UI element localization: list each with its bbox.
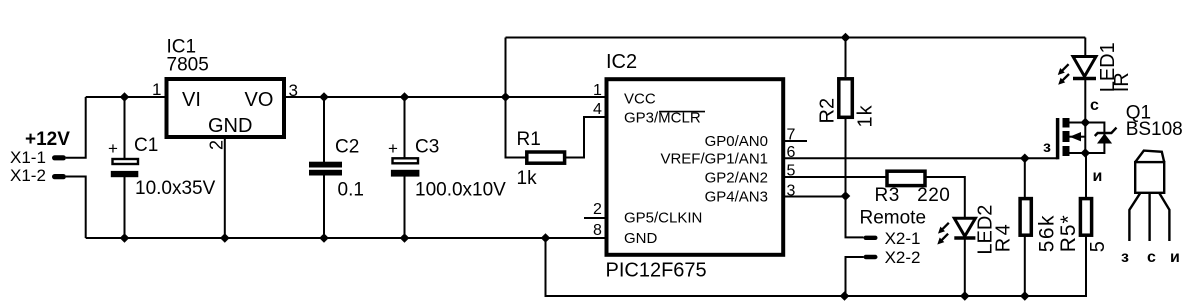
- svg-text:IC2: IC2: [606, 51, 637, 73]
- svg-text:c: c: [1090, 97, 1099, 114]
- svg-text:GND: GND: [208, 115, 252, 137]
- svg-text:R3 220: R3 220: [875, 185, 951, 206]
- svg-text:IR: IR: [1111, 72, 1133, 92]
- svg-text:8: 8: [593, 222, 602, 239]
- svg-text:+: +: [388, 139, 398, 158]
- svg-text:1: 1: [593, 82, 602, 99]
- svg-text:C3: C3: [415, 137, 439, 158]
- svg-text:0.1: 0.1: [338, 180, 364, 201]
- svg-text:C1: C1: [134, 135, 158, 156]
- svg-text:X1-2: X1-2: [10, 166, 46, 185]
- svg-text:и: и: [1170, 249, 1180, 266]
- svg-text:2: 2: [593, 201, 602, 218]
- svg-text:с: с: [1147, 249, 1156, 266]
- svg-text:и: и: [1093, 168, 1103, 185]
- svg-text:7: 7: [787, 127, 796, 144]
- svg-text:3: 3: [787, 183, 796, 200]
- svg-text:100.0x10V: 100.0x10V: [415, 180, 506, 201]
- svg-text:3: 3: [289, 81, 298, 100]
- svg-text:GP4/AN3: GP4/AN3: [705, 189, 768, 206]
- svg-text:з: з: [1043, 139, 1051, 156]
- svg-text:VCC: VCC: [624, 91, 656, 108]
- svg-text:X2-1: X2-1: [885, 229, 921, 248]
- svg-text:R2: R2: [817, 98, 839, 124]
- svg-text:4: 4: [593, 101, 602, 118]
- svg-text:5: 5: [1087, 241, 1109, 252]
- svg-text:+: +: [108, 139, 118, 158]
- svg-text:VI: VI: [182, 89, 201, 111]
- svg-text:VO: VO: [245, 89, 274, 111]
- svg-text:GND: GND: [624, 230, 658, 247]
- svg-text:GP5/CLKIN: GP5/CLKIN: [624, 210, 702, 227]
- svg-text:2: 2: [206, 140, 226, 150]
- svg-text:VREF/GP1/AN1: VREF/GP1/AN1: [660, 151, 768, 168]
- svg-text:PIC12F675: PIC12F675: [606, 260, 707, 282]
- svg-text:C2: C2: [335, 137, 359, 158]
- svg-text:GP2/AN2: GP2/AN2: [705, 170, 768, 187]
- svg-text:1k: 1k: [517, 168, 538, 189]
- svg-text:6: 6: [787, 144, 796, 161]
- svg-text:1: 1: [152, 80, 161, 99]
- svg-text:X1-1: X1-1: [10, 148, 46, 167]
- svg-text:56k: 56k: [1036, 214, 1059, 252]
- svg-text:+12V: +12V: [25, 129, 70, 150]
- svg-text:BS108: BS108: [1126, 119, 1183, 140]
- svg-text:7805: 7805: [167, 55, 209, 76]
- svg-text:1k: 1k: [855, 104, 877, 127]
- svg-text:R4: R4: [993, 222, 1015, 253]
- svg-text:Remote: Remote: [860, 208, 927, 229]
- svg-text:R1: R1: [517, 129, 541, 150]
- svg-text:GP0/AN0: GP0/AN0: [705, 133, 768, 150]
- svg-text:X2-2: X2-2: [885, 248, 921, 267]
- svg-text:з: з: [1121, 249, 1129, 266]
- svg-text:10.0x35V: 10.0x35V: [135, 178, 216, 199]
- svg-text:R5*: R5*: [1057, 214, 1080, 252]
- svg-text:5: 5: [787, 163, 796, 180]
